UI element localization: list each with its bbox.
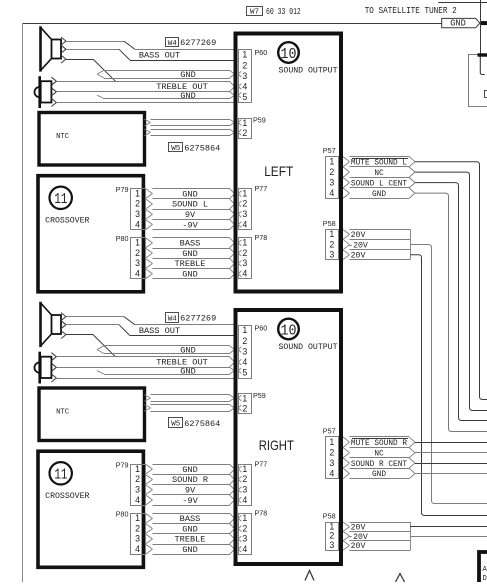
svg-text:W4: W4 <box>168 40 178 48</box>
svg-text:D: D <box>483 575 487 582</box>
svg-text:GND: GND <box>180 345 195 355</box>
svg-text:9V: 9V <box>185 485 196 495</box>
svg-text:2: 2 <box>242 199 247 209</box>
svg-text:60 33 012: 60 33 012 <box>266 7 301 17</box>
svg-text:BASS: BASS <box>180 514 201 524</box>
svg-text:4: 4 <box>135 544 140 554</box>
svg-text:20V: 20V <box>351 231 366 240</box>
svg-text:1: 1 <box>242 188 247 198</box>
svg-text:2: 2 <box>135 248 140 258</box>
svg-text:P80: P80 <box>116 234 129 243</box>
svg-text:2: 2 <box>242 474 247 484</box>
svg-text:3: 3 <box>329 458 334 468</box>
svg-text:A: A <box>483 566 487 574</box>
svg-text:3: 3 <box>329 177 334 187</box>
svg-text:P60: P60 <box>255 48 268 57</box>
svg-text:10: 10 <box>281 46 297 63</box>
svg-text:TO SATELLITE TUNER 2: TO SATELLITE TUNER 2 <box>365 5 457 16</box>
svg-text:4: 4 <box>135 219 140 229</box>
svg-text:2: 2 <box>242 128 247 138</box>
svg-text:CROSSOVER: CROSSOVER <box>45 216 89 225</box>
svg-text:3: 3 <box>242 209 247 219</box>
svg-text:P59: P59 <box>253 116 266 125</box>
svg-text:1: 1 <box>242 50 247 60</box>
svg-text:6275864: 6275864 <box>184 143 220 153</box>
svg-text:2: 2 <box>242 336 247 346</box>
svg-text:SOUND R: SOUND R <box>172 475 208 485</box>
svg-text:GND: GND <box>180 366 195 376</box>
svg-text:P58: P58 <box>323 512 336 521</box>
svg-text:11: 11 <box>54 467 67 484</box>
svg-text:3: 3 <box>135 484 140 494</box>
svg-text:4: 4 <box>135 495 140 505</box>
svg-text:GND: GND <box>182 545 197 555</box>
svg-text:SOUND OUTPUT: SOUND OUTPUT <box>279 65 338 75</box>
svg-text:2: 2 <box>329 167 334 177</box>
svg-text:GND: GND <box>180 91 195 101</box>
svg-text:MUTE SOUND L: MUTE SOUND L <box>351 159 407 167</box>
svg-text:4: 4 <box>242 268 247 278</box>
svg-text:GND: GND <box>450 18 466 29</box>
svg-text:MUTE SOUND R: MUTE SOUND R <box>351 440 407 448</box>
svg-text:4: 4 <box>135 268 140 278</box>
svg-text:SOUND R CENT: SOUND R CENT <box>351 461 407 469</box>
svg-text:1: 1 <box>135 238 140 248</box>
svg-text:BASS OUT: BASS OUT <box>139 51 180 61</box>
svg-text:SOUND L CENT: SOUND L CENT <box>351 180 407 188</box>
svg-text:3: 3 <box>242 484 247 494</box>
svg-text:W5: W5 <box>171 145 181 153</box>
svg-text:GND: GND <box>182 249 197 259</box>
svg-text:1: 1 <box>242 513 247 523</box>
svg-text:6277269: 6277269 <box>180 314 216 324</box>
svg-text:BASS OUT: BASS OUT <box>139 326 180 336</box>
svg-text:10: 10 <box>281 322 297 339</box>
svg-text:GND: GND <box>180 70 195 80</box>
svg-text:4: 4 <box>329 468 334 478</box>
svg-text:2: 2 <box>242 403 247 413</box>
svg-text:1: 1 <box>329 156 334 166</box>
svg-text:W5: W5 <box>171 420 181 428</box>
svg-text:P57: P57 <box>323 426 336 435</box>
svg-text:20V: 20V <box>351 523 366 532</box>
svg-text:3: 3 <box>242 71 247 81</box>
svg-text:4: 4 <box>242 82 247 92</box>
svg-text:P58: P58 <box>323 219 336 228</box>
svg-text:4: 4 <box>242 219 247 229</box>
svg-text:1: 1 <box>242 394 247 404</box>
svg-text:-9V: -9V <box>182 220 198 230</box>
svg-text:5: 5 <box>242 92 247 102</box>
svg-text:20V: 20V <box>351 542 366 551</box>
svg-text:-20V: -20V <box>348 533 368 542</box>
svg-text:2: 2 <box>242 523 247 533</box>
svg-text:P79: P79 <box>116 461 129 470</box>
svg-text:1: 1 <box>242 325 247 335</box>
svg-text:3: 3 <box>242 534 247 544</box>
svg-text:P78: P78 <box>255 509 268 518</box>
svg-text:2: 2 <box>242 248 247 258</box>
svg-text:1: 1 <box>135 513 140 523</box>
svg-text:4: 4 <box>242 495 247 505</box>
svg-text:4: 4 <box>242 544 247 554</box>
svg-text:3: 3 <box>242 258 247 268</box>
svg-text:1: 1 <box>135 188 140 198</box>
svg-text:2: 2 <box>135 523 140 533</box>
svg-text:GND: GND <box>372 191 386 199</box>
svg-text:2: 2 <box>135 474 140 484</box>
svg-text:GND: GND <box>182 524 197 534</box>
svg-text:P57: P57 <box>323 146 336 155</box>
svg-text:W7: W7 <box>250 8 259 16</box>
svg-text:20V: 20V <box>351 251 366 260</box>
svg-text:GND: GND <box>182 465 197 475</box>
svg-text:CROSSOVER: CROSSOVER <box>45 492 89 501</box>
svg-text:1: 1 <box>242 238 247 248</box>
svg-text:BASS: BASS <box>180 239 201 249</box>
svg-text:P60: P60 <box>255 324 268 333</box>
svg-text:1: 1 <box>329 437 334 447</box>
svg-text:LEFT: LEFT <box>264 163 293 179</box>
svg-text:W4: W4 <box>168 315 178 323</box>
svg-text:P79: P79 <box>116 185 129 194</box>
svg-text:6275864: 6275864 <box>184 419 220 429</box>
svg-text:3: 3 <box>135 209 140 219</box>
svg-text:P80: P80 <box>116 509 129 518</box>
svg-text:NC: NC <box>374 170 384 178</box>
svg-text:TREBLE: TREBLE <box>175 535 206 545</box>
svg-text:-9V: -9V <box>182 496 198 506</box>
svg-text:9V: 9V <box>185 210 196 220</box>
svg-text:3: 3 <box>242 346 247 356</box>
svg-text:4: 4 <box>242 357 247 367</box>
svg-text:SOUND OUTPUT: SOUND OUTPUT <box>279 342 338 352</box>
svg-text:NC: NC <box>374 450 384 458</box>
svg-text:3: 3 <box>135 534 140 544</box>
svg-text:5: 5 <box>242 368 247 378</box>
svg-text:1: 1 <box>329 229 334 239</box>
svg-text:P78: P78 <box>255 233 268 242</box>
svg-text:GND: GND <box>182 269 197 279</box>
svg-text:11: 11 <box>54 191 67 208</box>
svg-text:NTC: NTC <box>56 409 70 417</box>
svg-text:1: 1 <box>135 464 140 474</box>
svg-text:2: 2 <box>242 60 247 70</box>
svg-text:2: 2 <box>329 447 334 457</box>
svg-text:RIGHT: RIGHT <box>259 437 295 453</box>
svg-text:-20V: -20V <box>348 241 368 250</box>
svg-text:1: 1 <box>242 118 247 128</box>
svg-text:P77: P77 <box>255 460 268 469</box>
svg-text:1: 1 <box>242 464 247 474</box>
svg-text:6277269: 6277269 <box>180 38 216 48</box>
svg-text:3: 3 <box>135 258 140 268</box>
svg-text:3: 3 <box>329 540 334 550</box>
svg-text:3: 3 <box>329 249 334 259</box>
svg-text:GND: GND <box>372 471 386 479</box>
svg-text:P59: P59 <box>253 391 266 400</box>
svg-text:2: 2 <box>135 199 140 209</box>
svg-text:GND: GND <box>182 189 197 199</box>
svg-text:4: 4 <box>329 188 334 198</box>
svg-text:P77: P77 <box>255 184 268 193</box>
svg-text:SOUND L: SOUND L <box>172 200 208 210</box>
svg-text:2: 2 <box>329 239 334 249</box>
svg-text:NTC: NTC <box>56 133 70 141</box>
svg-text:TREBLE: TREBLE <box>175 259 206 269</box>
